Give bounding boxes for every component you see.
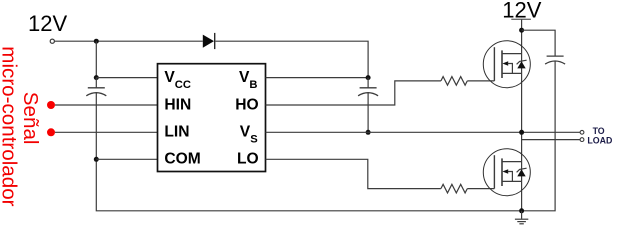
svg-text:LOAD: LOAD (587, 136, 612, 146)
terminal 12V input (50, 39, 54, 43)
capacitor C3 supply filter (545, 56, 565, 64)
svg-text:12V: 12V (28, 11, 67, 36)
terminal LOAD (580, 138, 584, 142)
node phase VS junction (519, 130, 524, 135)
terminal LIN red (47, 128, 55, 136)
wire main drain rail (521, 19, 523, 211)
wire left rail cap to bottom corner (96, 93, 521, 211)
wire R1 to gate Q1 (467, 80, 494, 82)
node COM junction (94, 157, 99, 162)
node VB bootstrap junction (366, 75, 371, 80)
wire HO with jog (266, 81, 441, 105)
wire top rail left segment (55, 40, 203, 42)
node VS bootstrap junction (366, 130, 371, 135)
capacitor C2 bootstrap (358, 78, 378, 133)
wire VB to bootstrap node (266, 77, 369, 79)
resistor R1 high-side gate (441, 77, 467, 86)
svg-text:HIN: HIN (164, 96, 191, 113)
wire filter cap to ground rail (522, 61, 556, 211)
svg-text:TO: TO (593, 126, 605, 136)
transistor Q1 high-side MOSFET (483, 41, 530, 88)
node 12V branch junction (519, 28, 524, 33)
wire phase to LOAD terminal (522, 139, 581, 141)
transistor Q2 low-side MOSFET (483, 149, 530, 196)
op-amp U1 driver IC box (158, 64, 266, 172)
svg-text:COM: COM (164, 151, 200, 168)
wire LIN to IC (55, 131, 158, 133)
wire HIN to IC (55, 104, 158, 106)
wire VS to TO terminal (266, 131, 581, 133)
wire left rail down to Vcc node (95, 41, 97, 77)
wire top rail right segment to VB corner (216, 41, 369, 77)
diode D1 (203, 33, 215, 49)
node junction top-left (94, 39, 99, 44)
wire Vcc to IC (96, 77, 157, 79)
svg-text:Señal: Señal (19, 92, 42, 145)
wire 12V to filter cap (522, 30, 556, 56)
ground (515, 211, 528, 224)
resistor R2 low-side gate (441, 184, 467, 193)
capacitor C1 Vcc bypass (86, 78, 106, 96)
svg-text:LIN: LIN (164, 124, 189, 141)
wire R2 to gate Q2 (467, 188, 494, 190)
node Vcc junction (94, 75, 99, 80)
svg-text:HO: HO (235, 96, 258, 113)
wire COM to IC (96, 158, 157, 160)
node ground junction (519, 208, 524, 213)
terminal TO (580, 130, 584, 134)
wire LO with step down (266, 159, 441, 188)
svg-text:LO: LO (237, 151, 259, 168)
terminal HIN red (47, 101, 55, 109)
label Señal micro-controlador (0, 46, 42, 206)
svg-text:micro-controlador: micro-controlador (0, 46, 21, 206)
power bar 12V (511, 18, 531, 20)
